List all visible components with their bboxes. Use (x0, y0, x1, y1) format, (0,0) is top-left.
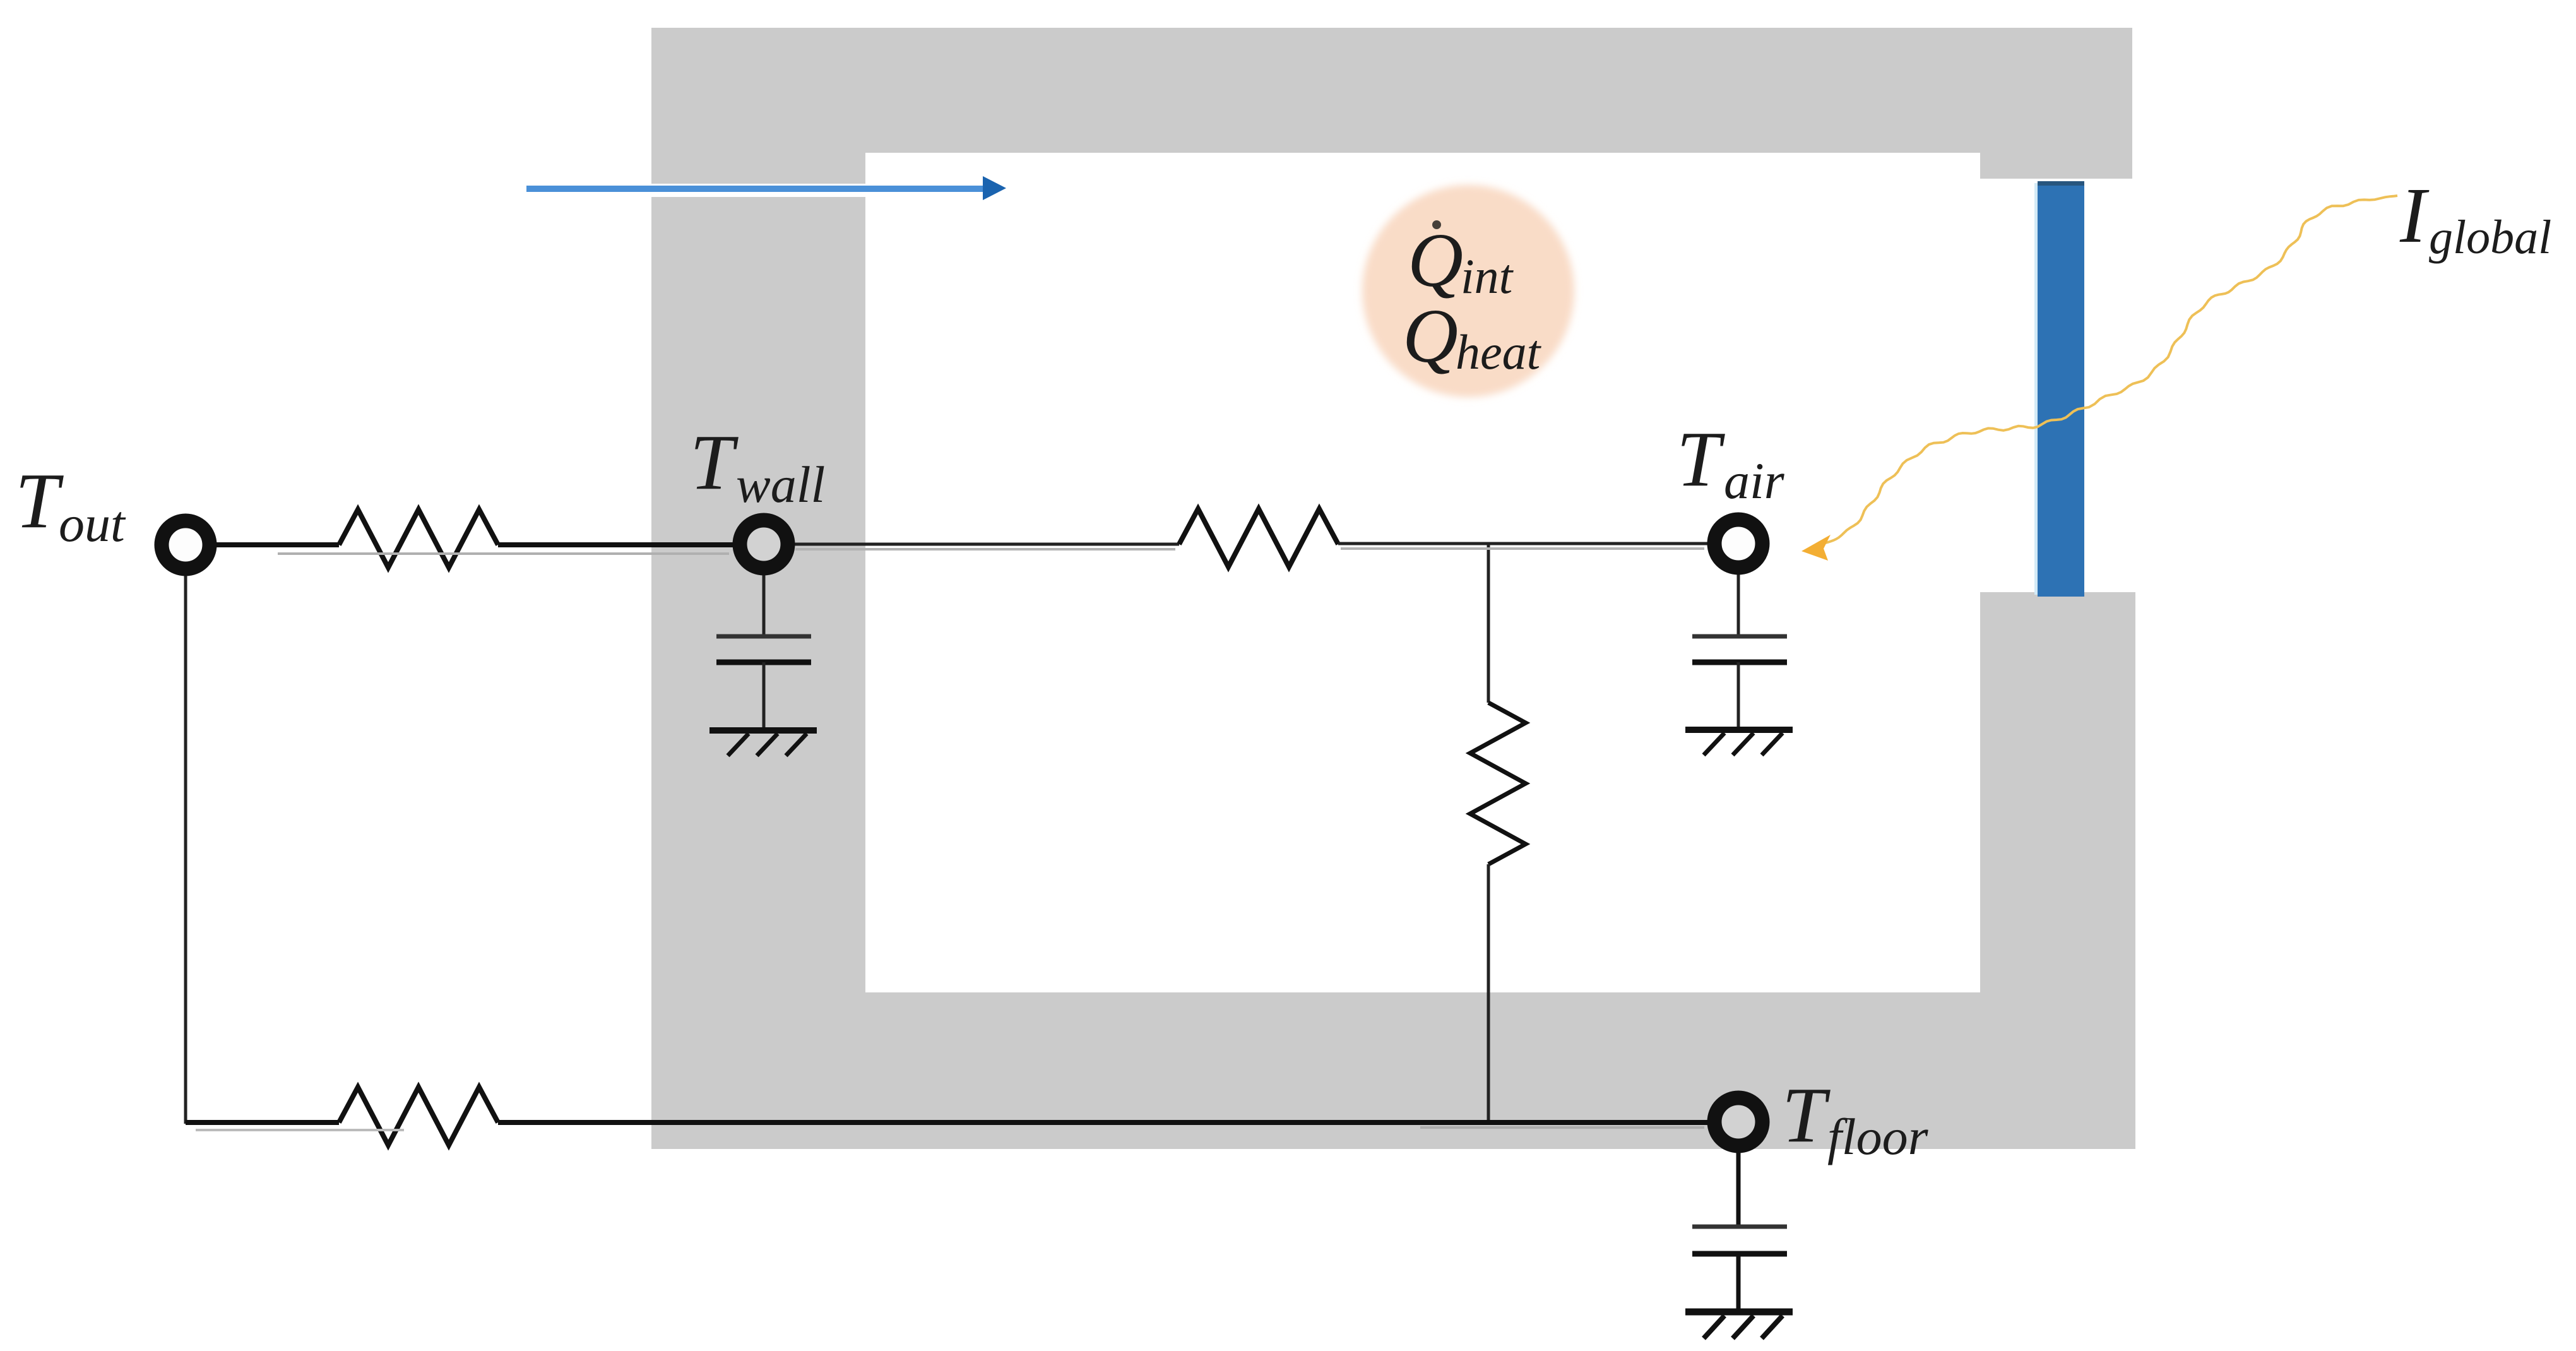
capacitor C_air bottom plate (1692, 660, 1787, 665)
capacitor C_wall lower stub (763, 662, 766, 727)
capacitor C_air stub (1737, 572, 1740, 636)
svg-text:out: out (59, 495, 126, 552)
capacitor C_wall top plate (716, 634, 811, 639)
capacitor C_floor lower stub (1736, 1254, 1741, 1309)
ventilation arrow head (983, 176, 1006, 200)
wall right vertical (below window) (1980, 592, 2135, 1149)
ground at C_air: hatches (1704, 733, 1783, 755)
label Q_heat (1403, 294, 1542, 379)
solar gain squiggle (yellow wavy line) (1818, 196, 2397, 545)
resistor R1 (T_out - T_wall) (339, 509, 498, 568)
svg-text:I: I (2399, 172, 2430, 259)
wire shadow bottom-left (196, 1129, 404, 1131)
ground at C_wall: bar (709, 727, 817, 734)
wire shadow under T_out lead (278, 552, 729, 555)
label T_air (1677, 416, 1785, 509)
wire T_wall to R2 (793, 543, 1179, 546)
node T_out (162, 521, 210, 569)
svg-text:heat: heat (1456, 324, 1542, 379)
ground at C_floor: hatches (1704, 1316, 1783, 1338)
wire T_out down (184, 573, 187, 1124)
window (blue glazing bar) (2034, 183, 2040, 595)
capacitor C_floor top plate (1692, 1225, 1787, 1229)
wall bottom band (floor slab) (651, 992, 2134, 1149)
label T_floor (1782, 1072, 1929, 1165)
svg-text:floor: floor (1827, 1108, 1929, 1165)
wire shadow right of T_wall (795, 548, 1175, 551)
capacitor C_floor stub (1736, 1150, 1741, 1227)
wire R4 to bottom row (1487, 864, 1490, 1122)
svg-text:wall: wall (736, 456, 825, 513)
label T_wall (690, 419, 825, 513)
resistor R3 (T_out - T_floor) (339, 1087, 498, 1145)
ground at C_floor: bar (1685, 1309, 1793, 1316)
internal gains source blob Q (1362, 185, 1574, 397)
wall top band (gray) (651, 28, 2132, 153)
wire shadow right of R2 (1341, 547, 1704, 550)
svg-text:T: T (690, 419, 739, 506)
wire junction drop to R4 (1487, 544, 1490, 703)
capacitor C_air top plate (1692, 634, 1787, 639)
capacitor C_air lower stub (1737, 662, 1740, 727)
wire shadow left of T_floor (1420, 1126, 1704, 1129)
capacitor C_wall stub (763, 573, 766, 636)
svg-text:int: int (1461, 249, 1514, 304)
capacitor C_floor bottom plate (1692, 1251, 1787, 1257)
node T_wall (740, 520, 788, 568)
wire R2 to T_air (1338, 542, 1709, 545)
ventilation arrow (blue) shaft (526, 186, 983, 192)
svg-text:global: global (2429, 211, 2551, 264)
solar gain arrow head (yellow) (1801, 535, 1831, 561)
label I_global (2399, 172, 2551, 264)
svg-text:T: T (1782, 1072, 1831, 1159)
wire R1 to T_wall (498, 542, 733, 547)
ground at C_wall: hatches (728, 734, 807, 756)
svg-text:T: T (15, 458, 64, 545)
ground at C_air: bar (1685, 727, 1793, 733)
wall upper-right lintel block (1980, 153, 2132, 179)
resistor R4 (T_air - T_floor, vertical) (1470, 703, 1526, 864)
white slit across left wall for ventilation arrow (648, 184, 865, 197)
svg-text:T: T (1677, 416, 1725, 503)
wire bottom left corner to R3 (186, 1120, 339, 1125)
wire T_out to R1 (216, 542, 339, 547)
svg-text:Q: Q (1403, 294, 1458, 379)
node T_air (1714, 520, 1762, 568)
svg-text:air: air (1724, 452, 1785, 509)
capacitor C_wall bottom plate (716, 660, 811, 665)
wire R3 to T_floor (498, 1120, 1709, 1125)
node T_floor (1714, 1098, 1762, 1146)
svg-text:Q: Q (1408, 218, 1463, 303)
label Qdot_int (1408, 218, 1514, 304)
wall left vertical (651, 28, 865, 1149)
resistor R2 (T_wall - T_air) (1179, 509, 1338, 567)
label T_out (15, 458, 126, 552)
